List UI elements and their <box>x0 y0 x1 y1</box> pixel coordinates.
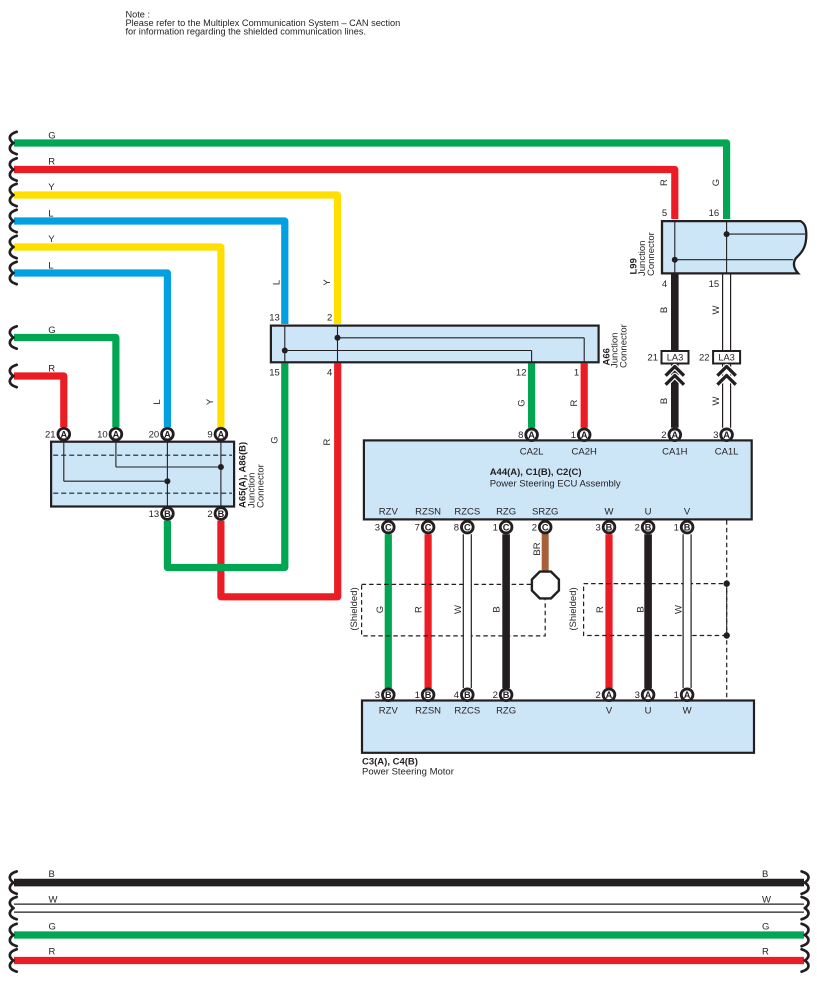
svg-text:Y: Y <box>322 279 333 286</box>
svg-text:B: B <box>49 869 55 880</box>
svg-text:G: G <box>49 922 56 933</box>
svg-text:W: W <box>674 605 685 614</box>
svg-text:R: R <box>322 438 333 445</box>
svg-text:for information regarding the: for information regarding the shielded c… <box>126 27 367 37</box>
svg-text:(Shielded): (Shielded) <box>568 587 579 630</box>
svg-text:Power Steering ECU Assembly: Power Steering ECU Assembly <box>490 479 621 490</box>
svg-text:RZCS: RZCS <box>454 507 480 518</box>
svg-text:1: 1 <box>674 690 679 701</box>
svg-text:B: B <box>164 509 171 519</box>
svg-text:A: A <box>113 429 120 439</box>
svg-text:15: 15 <box>709 279 720 290</box>
svg-text:BR: BR <box>532 542 543 555</box>
svg-text:21: 21 <box>45 430 56 441</box>
svg-text:Connector: Connector <box>619 324 630 368</box>
svg-text:Connector: Connector <box>256 464 267 508</box>
svg-text:CA2H: CA2H <box>572 447 597 458</box>
svg-text:3: 3 <box>596 523 601 534</box>
svg-text:R: R <box>49 947 56 958</box>
svg-text:V: V <box>606 706 613 717</box>
svg-text:Connector: Connector <box>646 232 657 276</box>
svg-text:G: G <box>517 399 528 406</box>
svg-text:LA3: LA3 <box>718 353 735 363</box>
svg-text:8: 8 <box>518 430 523 441</box>
svg-text:A: A <box>581 430 588 440</box>
svg-text:R: R <box>414 606 425 613</box>
svg-text:V: V <box>684 507 691 518</box>
svg-text:W: W <box>711 305 722 314</box>
svg-text:B: B <box>385 690 392 700</box>
svg-text:CA1H: CA1H <box>662 447 687 458</box>
svg-text:Power Steering Motor: Power Steering Motor <box>362 767 454 778</box>
svg-text:15: 15 <box>269 368 280 379</box>
svg-text:B: B <box>659 398 670 404</box>
svg-text:3: 3 <box>375 523 380 534</box>
svg-text:A: A <box>218 429 225 439</box>
svg-text:C: C <box>503 522 510 532</box>
svg-text:1: 1 <box>674 523 679 534</box>
svg-text:W: W <box>605 507 614 518</box>
svg-text:2: 2 <box>327 313 332 324</box>
svg-text:RZV: RZV <box>379 706 399 717</box>
svg-text:A: A <box>684 690 691 700</box>
svg-text:RZG: RZG <box>496 706 516 717</box>
svg-text:B: B <box>503 690 510 700</box>
svg-text:U: U <box>645 706 652 717</box>
svg-text:G: G <box>762 922 769 933</box>
svg-text:A: A <box>645 690 652 700</box>
svg-text:20: 20 <box>149 430 160 441</box>
svg-text:CA2L: CA2L <box>520 447 544 458</box>
svg-text:G: G <box>48 131 55 142</box>
svg-text:2: 2 <box>635 523 640 534</box>
svg-text:A44(A), C1(B), C2(C): A44(A), C1(B), C2(C) <box>490 467 582 478</box>
svg-text:B: B <box>659 307 670 313</box>
svg-text:L: L <box>48 260 53 271</box>
svg-text:W: W <box>762 895 771 906</box>
svg-text:L: L <box>152 399 163 404</box>
svg-text:10: 10 <box>97 430 108 441</box>
svg-text:2: 2 <box>207 509 212 520</box>
svg-text:Y: Y <box>205 398 216 405</box>
svg-text:A: A <box>723 430 730 440</box>
svg-text:(Shielded): (Shielded) <box>349 587 360 630</box>
svg-text:G: G <box>48 325 55 336</box>
svg-text:13: 13 <box>149 509 160 520</box>
svg-text:G: G <box>375 606 386 613</box>
svg-text:Y: Y <box>48 182 55 193</box>
svg-text:W: W <box>711 396 722 405</box>
svg-text:A: A <box>528 430 535 440</box>
svg-text:B: B <box>491 606 502 612</box>
svg-text:RZV: RZV <box>379 507 399 518</box>
svg-text:B: B <box>762 869 768 880</box>
svg-text:W: W <box>453 605 464 614</box>
svg-text:5: 5 <box>662 208 667 219</box>
svg-text:A: A <box>60 429 67 439</box>
svg-text:G: G <box>711 179 722 186</box>
svg-text:B: B <box>606 522 613 532</box>
svg-text:1: 1 <box>571 430 576 441</box>
svg-text:B: B <box>464 690 471 700</box>
svg-text:RZSN: RZSN <box>415 507 441 518</box>
svg-text:Y: Y <box>48 234 55 245</box>
svg-text:22: 22 <box>699 353 710 364</box>
svg-text:B: B <box>425 690 432 700</box>
svg-text:R: R <box>569 399 580 406</box>
svg-text:C: C <box>385 522 392 532</box>
svg-text:RZSN: RZSN <box>415 706 441 717</box>
svg-text:R: R <box>659 179 670 186</box>
svg-text:2: 2 <box>532 523 537 534</box>
svg-text:LA3: LA3 <box>667 353 684 363</box>
svg-text:2: 2 <box>493 690 498 701</box>
svg-text:2: 2 <box>661 430 666 441</box>
svg-text:1: 1 <box>574 368 579 379</box>
svg-text:G: G <box>270 436 281 443</box>
svg-text:13: 13 <box>269 313 280 324</box>
svg-text:R: R <box>762 947 769 958</box>
svg-text:4: 4 <box>327 368 332 379</box>
svg-text:RZG: RZG <box>496 507 516 518</box>
svg-text:4: 4 <box>662 279 667 290</box>
svg-text:C: C <box>425 522 432 532</box>
svg-text:B: B <box>645 522 652 532</box>
svg-text:16: 16 <box>709 208 720 219</box>
svg-text:CA1L: CA1L <box>715 447 739 458</box>
svg-text:U: U <box>645 507 652 518</box>
svg-text:W: W <box>683 706 692 717</box>
svg-text:L: L <box>48 208 53 219</box>
svg-text:1: 1 <box>493 523 498 534</box>
svg-text:2: 2 <box>596 690 601 701</box>
svg-text:A: A <box>164 429 171 439</box>
svg-text:RZCS: RZCS <box>454 706 480 717</box>
svg-text:9: 9 <box>207 430 212 441</box>
svg-text:R: R <box>595 606 606 613</box>
svg-text:3: 3 <box>713 430 718 441</box>
svg-text:C: C <box>542 522 549 532</box>
svg-text:R: R <box>48 364 55 375</box>
svg-text:12: 12 <box>516 368 527 379</box>
svg-text:B: B <box>684 522 691 532</box>
svg-text:3: 3 <box>375 690 380 701</box>
svg-text:A: A <box>606 690 613 700</box>
svg-text:W: W <box>49 895 58 906</box>
svg-text:A: A <box>671 430 678 440</box>
svg-text:L: L <box>272 280 283 285</box>
svg-text:4: 4 <box>454 690 459 701</box>
svg-text:7: 7 <box>415 523 420 534</box>
svg-text:21: 21 <box>647 353 658 364</box>
svg-text:R: R <box>48 157 55 168</box>
svg-text:B: B <box>636 606 647 612</box>
svg-text:C: C <box>464 522 471 532</box>
svg-text:8: 8 <box>454 523 459 534</box>
svg-text:B: B <box>218 509 225 519</box>
svg-text:SRZG: SRZG <box>532 507 558 518</box>
svg-text:3: 3 <box>635 690 640 701</box>
svg-text:1: 1 <box>415 690 420 701</box>
